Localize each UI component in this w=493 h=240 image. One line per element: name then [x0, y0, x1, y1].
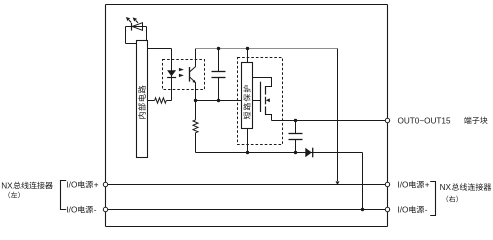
svg-text:I/O: I/O	[66, 206, 77, 215]
transistor Q1 (output MOSFET)	[253, 78, 272, 121]
label: （右）	[447, 196, 458, 203]
terminal: right I/O power -	[385, 207, 389, 211]
junction: protection top	[246, 47, 249, 50]
enclosure: I/O circuit outline	[106, 5, 388, 227]
svg-text:I/O: I/O	[398, 206, 409, 215]
wire: top rail drop to I/O+ rail (current arrow)	[336, 49, 340, 186]
terminal: OUT0~OUT15	[385, 118, 389, 122]
wire: internal circuit to optocoupler LED anode	[148, 49, 172, 101]
svg-text:-: -	[94, 206, 97, 215]
bracket: left connector	[61, 181, 67, 210]
diode D2 (flywheel)	[305, 148, 312, 158]
wire: emitter node to protection block	[196, 100, 242, 102]
label: 内部电路 (vertical)	[138, 86, 146, 119]
short-circuit protection box	[242, 63, 253, 129]
junction: emitter node	[194, 99, 197, 102]
short-circuit protection dashed outline	[238, 58, 283, 145]
label: NX bus connector (right)	[440, 183, 492, 192]
svg-text:I/O: I/O	[398, 181, 409, 190]
capacitor C1	[212, 49, 226, 101]
svg-text:+: +	[94, 181, 99, 190]
terminal: left I/O power +	[103, 182, 107, 186]
wire: OUT line to terminal	[272, 120, 386, 122]
label: （左）	[8, 192, 19, 199]
svg-text:OUT0~OUT15: OUT0~OUT15	[398, 116, 451, 125]
internal circuit block box	[137, 41, 148, 158]
junction: C1 top	[217, 47, 220, 50]
label: right I/O 电源+	[398, 181, 430, 190]
junction: bottom line to I/O- rail	[361, 208, 364, 211]
bracket: right connector	[430, 182, 435, 216]
svg-text:-: -	[425, 206, 428, 215]
wire: bottom node line	[196, 153, 363, 210]
junction: C2 bottom	[294, 151, 297, 154]
resistor R2	[193, 101, 198, 153]
wire: I/O power - rail	[106, 209, 386, 211]
label: NX bus connector (left)	[1, 181, 53, 190]
svg-text:NX: NX	[440, 183, 452, 192]
label: left I/O 电源-	[66, 206, 96, 215]
label: 短路保护 (vertical)	[243, 85, 250, 119]
terminal: left I/O power -	[103, 207, 107, 211]
junction: C1 bottom	[217, 99, 220, 102]
label: 端子块	[464, 117, 487, 124]
junction: C2 top	[294, 119, 297, 122]
wire: I/O power + rail	[106, 184, 386, 186]
junction: protection bottom	[246, 151, 249, 154]
svg-text:I/O: I/O	[66, 181, 77, 190]
label: right I/O 电源-	[398, 206, 428, 215]
svg-text:NX: NX	[1, 181, 13, 190]
wire: protection top stub	[247, 49, 249, 63]
wire: indicator LED loop	[126, 27, 147, 44]
svg-text:+: +	[425, 181, 430, 190]
label: left I/O 电源+	[66, 181, 98, 190]
wire: top rail (collector to drop)	[196, 48, 338, 50]
optocoupler U1 LED	[167, 68, 184, 78]
optocoupler U1 dashed outline	[163, 60, 205, 90]
capacitor C2	[289, 121, 303, 153]
wire: protection bottom stub	[247, 129, 249, 153]
optocoupler U1 phototransistor	[190, 49, 196, 101]
LED indicator D1 (output status)	[126, 17, 143, 31]
resistor R1	[148, 98, 172, 103]
terminal: right I/O power +	[385, 182, 389, 186]
